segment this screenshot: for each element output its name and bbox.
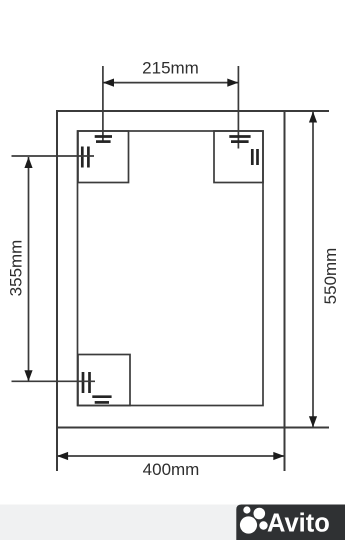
svg-text:355mm: 355mm <box>7 240 26 297</box>
svg-text:400mm: 400mm <box>143 460 200 479</box>
svg-text:Avito: Avito <box>267 510 330 538</box>
svg-text:215mm: 215mm <box>142 59 199 78</box>
svg-text:550mm: 550mm <box>321 248 340 305</box>
